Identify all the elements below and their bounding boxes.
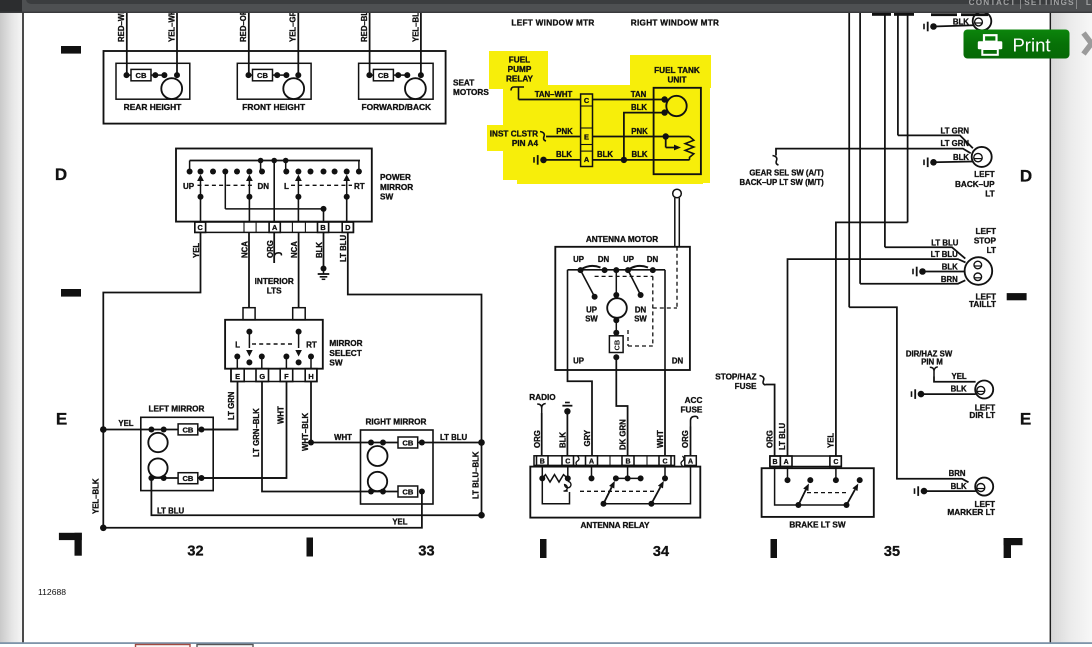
svg-text:LEFT: LEFT <box>976 227 996 236</box>
svg-text:CONTACT: CONTACT <box>969 0 1017 7</box>
left dir lamp <box>975 381 993 399</box>
ground antenna BLK <box>565 402 570 404</box>
svg-text:SETTINGS: SETTINGS <box>1024 0 1075 7</box>
svg-text:BRN: BRN <box>941 275 958 284</box>
left page gutter <box>0 13 22 643</box>
svg-text:WHT: WHT <box>656 430 665 448</box>
fuel connector strip <box>581 94 593 167</box>
svg-text:LT GRN: LT GRN <box>941 127 970 136</box>
wire BLK dir <box>921 393 976 395</box>
wire BLK marker <box>924 490 976 492</box>
brake dashed link <box>807 492 849 494</box>
svg-text:LT BLU: LT BLU <box>931 238 959 247</box>
svg-text:Print: Print <box>1012 35 1050 56</box>
svg-text:32: 32 <box>187 544 203 560</box>
brake fixed contacts <box>787 467 789 481</box>
brake arm 1 <box>795 502 801 508</box>
svg-text:PNK: PNK <box>631 127 648 136</box>
wire LT GRN-BLK G to right mirror <box>262 382 361 492</box>
svg-text:E: E <box>235 372 240 381</box>
svg-text:MIRROR: MIRROR <box>380 183 413 192</box>
svg-text:D: D <box>1020 167 1033 186</box>
brake pin A <box>780 456 792 467</box>
stop/haz pigtail <box>760 376 766 386</box>
svg-text:34: 34 <box>653 544 669 560</box>
pin D <box>342 222 353 232</box>
acc fuse pigtail <box>691 416 698 426</box>
cut-off connector stubs top right <box>872 13 891 16</box>
forward/back motor <box>405 78 426 99</box>
wire lower stubs to connector <box>248 197 250 222</box>
wire ORG stop/haz <box>766 385 775 457</box>
left mirror motor upper <box>148 433 167 452</box>
svg-text:LEFT: LEFT <box>974 170 994 179</box>
wire NCA2 to mirror select <box>298 232 300 307</box>
svg-text:BLK: BLK <box>315 242 324 258</box>
wire ORG to interior lts <box>273 232 275 263</box>
dn switch arm <box>628 270 641 295</box>
wire PNK left <box>546 136 581 138</box>
svg-text:DN: DN <box>258 182 270 191</box>
svg-text:YEL–BLK: YEL–BLK <box>92 478 101 514</box>
svg-text:UP: UP <box>573 357 584 366</box>
svg-text:PIN M: PIN M <box>921 357 943 366</box>
svg-text:GEAR SEL SW (A/T): GEAR SEL SW (A/T) <box>749 169 824 178</box>
wire RED-WHT to rear height CB <box>126 13 128 75</box>
svg-text:LTS: LTS <box>267 286 282 295</box>
wire TAN to fuel tank <box>593 99 665 101</box>
svg-text:H: H <box>308 372 313 381</box>
svg-text:F: F <box>284 372 289 381</box>
relay pin B1 <box>537 456 549 466</box>
circuit breaker CB right mirror top <box>398 437 418 448</box>
svg-text:BLK: BLK <box>942 262 958 271</box>
forward/back motor box <box>359 63 434 99</box>
pin B <box>318 222 329 232</box>
svg-text:LEFT MIRROR: LEFT MIRROR <box>149 405 205 414</box>
svg-text:RIGHT WINDOW MTR: RIGHT WINDOW MTR <box>631 19 719 28</box>
wire PNK right <box>593 136 690 138</box>
power mirror wiper arrows <box>197 175 204 182</box>
brake pin C <box>830 456 841 467</box>
svg-text:LT BLU: LT BLU <box>440 433 468 442</box>
relay dashed link <box>580 490 656 492</box>
toolbar separator 1 <box>1020 0 1022 9</box>
wire NCA1 to mirror select <box>248 232 250 307</box>
relay common wire <box>604 465 691 503</box>
svg-text:CB: CB <box>182 474 193 483</box>
wire YEL from pin C <box>103 232 200 527</box>
inst clstr pigtail <box>540 132 546 142</box>
wire YEL into left mirror <box>103 429 178 431</box>
svg-text:SW: SW <box>634 315 647 324</box>
svg-text:MARKER LT: MARKER LT <box>947 508 995 517</box>
print icon <box>984 35 997 42</box>
relay arm 2 <box>648 501 654 507</box>
wire ORG acc fuse <box>690 427 692 456</box>
svg-text:YEL: YEL <box>392 518 407 527</box>
mirror select switch box <box>225 320 323 369</box>
svg-text:BRN: BRN <box>949 469 966 478</box>
registration dash left middle <box>61 289 81 297</box>
svg-text:33: 33 <box>418 544 434 560</box>
svg-text:B: B <box>625 458 630 465</box>
relay row squiggle <box>576 456 579 466</box>
power mirror lower contacts <box>198 194 204 200</box>
right page gutter <box>1051 13 1092 643</box>
mirror select wiper right <box>298 332 300 348</box>
svg-text:FUEL: FUEL <box>509 56 530 65</box>
left mirror bottom contacts <box>148 475 154 481</box>
pin A <box>269 222 280 232</box>
svg-text:MOTORS: MOTORS <box>453 88 489 97</box>
svg-text:SW: SW <box>380 193 393 202</box>
svg-text:ORG: ORG <box>681 430 690 448</box>
svg-text:LT BLU: LT BLU <box>339 234 348 262</box>
svg-text:LEFT WINDOW MTR: LEFT WINDOW MTR <box>511 19 594 28</box>
antenna mast tip <box>673 189 682 198</box>
wire BLK fuel pump <box>661 109 667 115</box>
mirror select bottom contacts <box>234 354 240 360</box>
svg-text:PIN A4: PIN A4 <box>512 139 539 148</box>
wire TAN-WHT <box>519 99 581 101</box>
svg-text:LT BLU: LT BLU <box>157 507 185 516</box>
wire vertical run 3 <box>884 13 886 247</box>
svg-text:ORG: ORG <box>533 430 542 448</box>
relay pin C1 <box>562 456 574 466</box>
antenna relay box <box>530 467 700 518</box>
right mirror bottom out <box>419 489 425 495</box>
brake connector strip <box>770 456 841 467</box>
relay pin A1 <box>586 456 598 466</box>
pin G <box>256 369 269 382</box>
ground for left window motor lamp <box>923 24 925 30</box>
pin E <box>231 369 244 382</box>
relay coil return <box>542 478 569 503</box>
svg-text:B: B <box>772 459 777 466</box>
svg-text:CB: CB <box>378 71 389 80</box>
svg-text:YEL: YEL <box>118 419 133 428</box>
wire RED-ORG to front height CB <box>248 13 250 75</box>
fuel pump motor <box>666 96 686 116</box>
right mirror bottom contacts <box>368 489 374 495</box>
svg-text:BLK: BLK <box>556 150 572 159</box>
left window lamp bulb <box>973 12 992 31</box>
brake arm 2 <box>844 502 850 508</box>
left mirror motor lower <box>148 458 167 477</box>
rear height contacts <box>124 72 130 78</box>
svg-text:YEL: YEL <box>952 372 967 381</box>
power mirror contact row <box>187 169 193 175</box>
wire LT BLU from left mirror <box>151 478 481 515</box>
corner mark bottom right <box>1004 538 1011 558</box>
wire BLK fuel ground <box>544 159 581 161</box>
svg-text:E: E <box>1020 410 1032 429</box>
svg-text:E: E <box>56 410 68 429</box>
svg-text:B: B <box>540 458 545 465</box>
dashed link UP-DN <box>198 184 256 186</box>
bottom cut tab 2 <box>197 645 253 647</box>
svg-text:ANTENNA RELAY: ANTENNA RELAY <box>581 521 651 530</box>
mirror select stub 2 <box>293 308 306 320</box>
svg-text:UP: UP <box>573 255 584 264</box>
svg-text:TAN–WHT: TAN–WHT <box>535 90 573 99</box>
dashed link mirror select <box>252 343 295 345</box>
mirror select wiper left <box>248 332 250 348</box>
svg-text:REAR HEIGHT: REAR HEIGHT <box>124 102 183 112</box>
rear height motor box <box>116 63 190 99</box>
svg-text:D: D <box>345 223 351 232</box>
svg-text:L: L <box>284 182 289 191</box>
wire ORG radio <box>541 413 543 456</box>
brake light switch box <box>762 468 874 517</box>
page left border <box>22 13 24 643</box>
svg-text:UP: UP <box>586 306 597 315</box>
relay coil loop <box>564 481 571 491</box>
wire YEL-BLK bottom run <box>103 492 422 528</box>
front height contacts <box>246 72 252 78</box>
svg-text:BLK: BLK <box>951 482 967 491</box>
highlight: main fuel circuit area <box>503 85 600 180</box>
node LT BLU junction <box>478 512 485 519</box>
svg-text:BACK–UP LT SW (M/T): BACK–UP LT SW (M/T) <box>740 178 825 187</box>
grid tick 32/33 <box>307 538 314 557</box>
dashed link L-RT <box>291 184 352 186</box>
ground marker BLK <box>914 488 916 494</box>
wire UP to relay A <box>568 370 593 456</box>
acc pin A box <box>685 456 697 466</box>
svg-text:INST CLSTR: INST CLSTR <box>490 130 538 139</box>
svg-text:ANTENNA MOTOR: ANTENNA MOTOR <box>586 235 658 244</box>
highlight: inst clstr pin A4 label area <box>487 125 548 151</box>
svg-text:DN: DN <box>598 255 610 264</box>
top toolbar <box>0 0 1092 13</box>
svg-text:NCA: NCA <box>240 241 249 258</box>
bottom cut tab 1 <box>136 645 191 647</box>
wire YEL dir/haz to brake <box>836 222 908 456</box>
svg-text:TAN: TAN <box>631 90 647 99</box>
wire LT BLU 1 to stop light <box>885 247 965 258</box>
svg-text:DN: DN <box>647 255 659 264</box>
svg-text:DN: DN <box>672 357 684 366</box>
relay pin B2 <box>622 456 634 466</box>
svg-text:BLK: BLK <box>631 103 647 112</box>
wire BLK antenna <box>566 411 568 456</box>
svg-text:CB: CB <box>402 438 413 447</box>
page right border <box>1050 13 1052 643</box>
left mirror bottom out <box>199 475 205 481</box>
svg-text:CB: CB <box>612 340 621 351</box>
svg-text:B: B <box>320 223 325 232</box>
wire BLK backup <box>934 161 973 164</box>
power mirror switch box <box>176 149 372 222</box>
svg-text:STOP/HAZ: STOP/HAZ <box>715 373 756 382</box>
right mirror motor lower <box>368 472 387 491</box>
left mirror top contacts <box>148 427 154 433</box>
left tail lamp <box>965 257 993 285</box>
svg-text:UP: UP <box>183 182 195 191</box>
svg-text:LT: LT <box>985 190 994 199</box>
svg-text:NCA: NCA <box>290 241 299 258</box>
wire vertical run 5 <box>907 13 909 222</box>
svg-text:SELECT: SELECT <box>329 349 361 358</box>
fuel pump relay pigtail <box>511 87 524 100</box>
wire LT GRN 2 from gear sel sw <box>776 149 971 156</box>
corner mark bottom left <box>59 533 82 540</box>
svg-text:FRONT HEIGHT: FRONT HEIGHT <box>242 102 306 112</box>
circuit breaker CB forward/back <box>373 69 393 80</box>
svg-text:WHT–BLK: WHT–BLK <box>301 413 310 451</box>
svg-text:FUSE: FUSE <box>735 382 757 391</box>
svg-text:D: D <box>55 165 68 184</box>
svg-text:RT: RT <box>306 341 317 350</box>
wire vertical run 4 <box>897 13 899 135</box>
svg-text:A: A <box>589 458 594 465</box>
wire BLK fuel to tank <box>593 159 690 161</box>
pin F <box>280 369 293 382</box>
wire vertical run 2 <box>859 13 861 284</box>
left marker lamp <box>975 478 993 496</box>
svg-text:UNIT: UNIT <box>667 76 686 85</box>
svg-text:FUSE: FUSE <box>681 406 703 415</box>
relay fixed contacts <box>591 465 593 478</box>
svg-text:C: C <box>198 223 204 232</box>
ground dir BLK <box>911 391 913 397</box>
wire WHT-BLK H to right mirror <box>311 382 361 443</box>
wire LT GRN E to left mirror <box>202 382 238 430</box>
seat motors outer box <box>104 51 446 124</box>
wire YEL-GRN to front height motor <box>297 13 299 75</box>
circuit breaker CB antenna <box>613 330 619 336</box>
bottom pane divider <box>0 642 1092 644</box>
svg-text:A: A <box>784 459 789 466</box>
svg-text:LT GRN: LT GRN <box>227 391 236 420</box>
wire LT GRN 1 to backup light <box>898 135 973 148</box>
svg-text:SEAT: SEAT <box>453 79 474 88</box>
front height motor box <box>237 63 311 99</box>
antenna motor inner box <box>568 269 666 271</box>
wire LT BLU 2 from brake pin A <box>788 259 966 456</box>
wire BLK to window lamp <box>934 25 974 26</box>
forward/back contacts <box>366 72 372 78</box>
circuit breaker CB right mirror bottom <box>398 486 418 497</box>
svg-text:FORWARD/BACK: FORWARD/BACK <box>361 102 431 112</box>
wire RED-BLK to forward/back CB <box>369 13 371 75</box>
left mirror box <box>141 417 213 490</box>
highlight: fuel pump relay label area <box>489 51 548 89</box>
circuit breaker CB left mirror top <box>178 424 198 435</box>
ground backup BLK <box>923 160 925 166</box>
svg-text:YEL: YEL <box>826 433 835 448</box>
svg-text:A: A <box>688 458 693 465</box>
mirror select top contacts <box>246 329 252 335</box>
svg-text:WHT: WHT <box>334 433 352 442</box>
node YEL junction <box>100 426 107 433</box>
svg-text:RIGHT MIRROR: RIGHT MIRROR <box>366 418 427 427</box>
svg-text:RT: RT <box>354 182 365 191</box>
svg-text:BLK: BLK <box>951 385 967 394</box>
svg-text:WHT: WHT <box>276 406 285 424</box>
dir/haz pigtail <box>930 367 938 377</box>
wire DN to relay C <box>664 370 666 456</box>
svg-text:FUEL TANK: FUEL TANK <box>654 66 700 75</box>
svg-text:CB: CB <box>136 71 147 80</box>
wire vertical run 1 <box>848 13 850 307</box>
svg-text:BLK: BLK <box>631 150 647 159</box>
power mirror top bus <box>190 160 360 162</box>
grid tick 34/35 <box>771 539 778 558</box>
svg-text:RADIO: RADIO <box>529 393 556 402</box>
svg-text:A: A <box>272 223 278 232</box>
right mirror motor upper <box>368 446 388 466</box>
next page chevron <box>1084 33 1092 54</box>
antenna switch blades <box>581 266 601 270</box>
wire YEL-WHT to rear height motor <box>176 13 178 75</box>
svg-text:PNK: PNK <box>556 127 573 136</box>
relay coil <box>541 465 543 478</box>
right mirror top contacts <box>368 440 374 446</box>
left backup lamp <box>972 147 992 167</box>
svg-text:A: A <box>584 155 590 164</box>
wire C stub <box>200 197 202 222</box>
ground fuel BLK <box>533 157 535 163</box>
svg-text:35: 35 <box>884 544 900 560</box>
mirror select stub 1 <box>243 308 255 320</box>
wire LT BLU from pin D <box>348 232 482 515</box>
registration dash left top <box>61 46 81 54</box>
svg-text:ORG: ORG <box>765 430 774 448</box>
svg-text:RELAY: RELAY <box>506 75 534 84</box>
svg-text:L: L <box>1086 0 1092 7</box>
wire BRN to taillight <box>860 280 965 283</box>
ground power mirror BLK <box>321 266 327 272</box>
right mirror box <box>361 430 434 504</box>
relay arm 1 <box>601 501 607 507</box>
svg-text:LT BLU: LT BLU <box>931 250 959 259</box>
svg-text:BLK: BLK <box>597 150 613 159</box>
antenna motor circle <box>607 298 627 318</box>
antenna motor outer box <box>555 247 690 370</box>
svg-text:E: E <box>584 133 589 142</box>
wire BLK taillight <box>923 271 965 273</box>
power mirror internal BLK wire <box>224 172 226 209</box>
pin H <box>305 369 317 382</box>
svg-text:LT GRN: LT GRN <box>941 139 970 148</box>
gear sel switch pigtail <box>773 156 779 166</box>
wire YEL-BLU to forward/back motor <box>420 13 422 75</box>
registration dash right <box>1007 293 1027 300</box>
wire WHT F to left mirror <box>202 382 287 479</box>
svg-text:POWER: POWER <box>380 173 411 182</box>
circuit breaker CB rear height <box>131 69 151 80</box>
svg-text:LT GRN–BLK: LT GRN–BLK <box>252 408 261 457</box>
svg-text:DN: DN <box>635 306 647 315</box>
highlight: fuel tank unit label area <box>630 55 711 88</box>
svg-text:G: G <box>259 372 265 381</box>
fuel tank unit box <box>654 88 701 174</box>
svg-text:LT: LT <box>987 246 996 255</box>
antenna mast <box>674 198 676 247</box>
wire antenna CB to relay B <box>616 357 627 456</box>
svg-text:LT BLU: LT BLU <box>778 422 787 450</box>
power mirror connector strip <box>195 222 354 232</box>
circuit breaker CB front height <box>253 69 273 80</box>
svg-text:BLK: BLK <box>559 432 568 448</box>
left mirror top out <box>199 427 205 433</box>
svg-text:UP: UP <box>623 255 634 264</box>
svg-text:STOP: STOP <box>974 236 997 245</box>
svg-text:L: L <box>235 341 240 350</box>
